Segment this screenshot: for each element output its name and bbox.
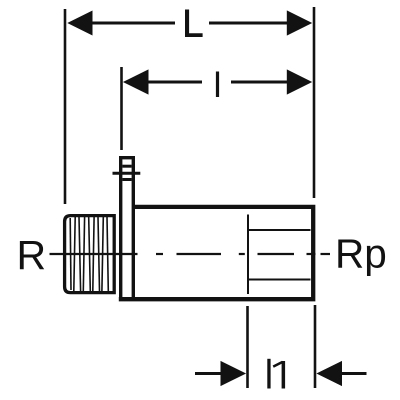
centerline dash 2: [177, 253, 222, 255]
collar centerline tick crossing: [113, 172, 141, 175]
collar tube right wall: [132, 156, 135, 301]
internal thread vertical line: [247, 215, 249, 295]
dimension L line right segment: [209, 22, 289, 25]
male thread body outline: [65, 216, 115, 293]
dimension L line left segment: [90, 22, 175, 25]
label l1: digit 1 stem: [282, 361, 286, 389]
svg-text:Rp: Rp: [335, 231, 387, 277]
collar ladder line 2: [122, 178, 131, 181]
dimension L/I extension line right: [313, 7, 316, 198]
dimension I line right segment: [231, 81, 289, 84]
collar tube top cap: [119, 156, 135, 159]
dimension l1 extension line left: [246, 306, 249, 388]
label l1: digit 1 flag: [273, 362, 282, 367]
internal thread top line: [248, 229, 311, 231]
dimension l1 tail right: [341, 372, 367, 375]
main body outline: [119, 207, 313, 299]
centerline dot 3: [307, 253, 316, 255]
dimension I line left segment: [147, 81, 202, 84]
label l1: letter l: [267, 359, 270, 389]
dimension I extension line left: [120, 67, 123, 150]
dimension L extension line left: [64, 9, 67, 204]
dimension l1 arrowhead right: [316, 361, 342, 386]
internal thread bottom line: [248, 279, 311, 281]
svg-text:R: R: [17, 232, 47, 278]
dimension L arrowhead left: [67, 11, 92, 36]
dimension l1 arrowhead left: [221, 361, 247, 386]
dimension I arrowhead right: [287, 69, 312, 94]
centerline dash 1: [50, 253, 138, 255]
dimension l1 extension line right: [314, 305, 317, 388]
dimension I arrowhead left: [123, 69, 149, 94]
centerline dash 4: [321, 253, 331, 255]
centerline dot 2: [239, 253, 245, 255]
centerline dot 1: [156, 253, 163, 255]
collar ladder line 1: [122, 165, 131, 168]
dimension l1 tail left: [195, 372, 222, 375]
male thread hatch lines: [70, 217, 108, 291]
label I: [216, 72, 219, 98]
collar tube left wall: [119, 156, 122, 301]
label L: [185, 10, 203, 38]
centerline dash 3: [258, 253, 295, 255]
dimension L arrowhead right: [287, 10, 312, 35]
